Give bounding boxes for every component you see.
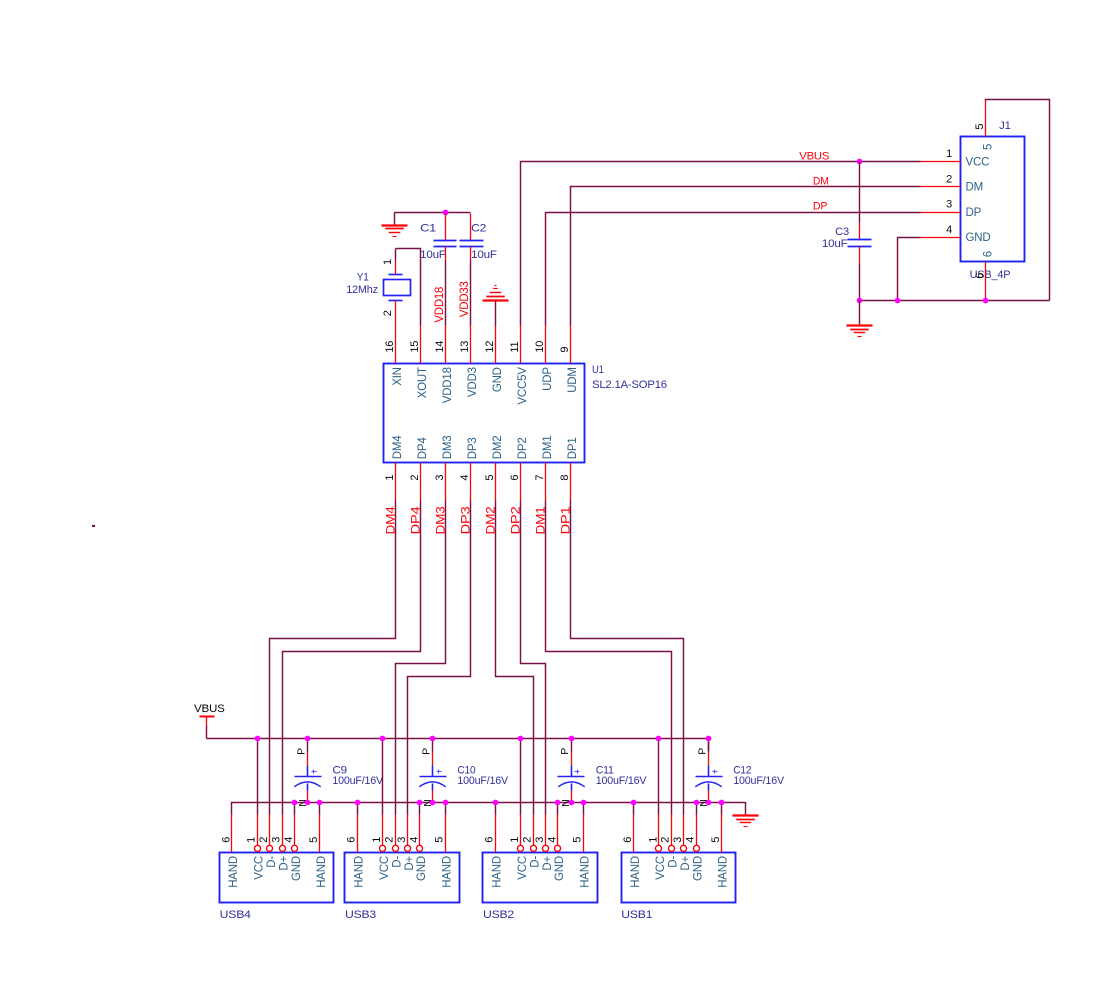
svg-text:100uF/16V: 100uF/16V <box>457 775 508 787</box>
svg-text:5: 5 <box>572 837 584 843</box>
svg-text:D-: D- <box>529 856 541 868</box>
U1 pin 12 (GND) <box>495 326 497 364</box>
svg-text:VCC: VCC <box>966 157 990 169</box>
wire GND bus <box>232 803 746 815</box>
wire crystal pin1 stub <box>395 249 397 261</box>
svg-text:P: P <box>697 748 709 755</box>
svg-text:2: 2 <box>258 837 270 843</box>
svg-text:D+: D+ <box>542 856 554 871</box>
wire J1 pin5 loop <box>986 100 1050 301</box>
wire VBUS (VCC5V to J1 pin1) <box>521 162 921 326</box>
J1 pin 3 (DP) <box>921 212 961 214</box>
svg-text:10uF: 10uF <box>471 249 497 261</box>
svg-text:3: 3 <box>434 475 446 481</box>
junction GND bus / USB3 pin5 <box>443 800 449 806</box>
svg-text:3: 3 <box>396 837 408 843</box>
svg-text:3: 3 <box>534 837 546 843</box>
svg-text:3: 3 <box>271 837 283 843</box>
svg-text:5: 5 <box>710 837 722 843</box>
junction C1 top <box>443 210 449 216</box>
wire DP1 to port <box>571 501 684 815</box>
svg-text:5: 5 <box>974 124 986 130</box>
svg-text:3: 3 <box>946 199 952 211</box>
junction VBUS bus / USB2 pin1 <box>518 736 524 742</box>
U1 pin 4 (DP3) <box>470 463 472 501</box>
junction gnd bus / J1 pin6 <box>983 298 989 304</box>
U1 pin 7 (DM1) <box>545 463 547 501</box>
junction VBUS bus / USB1 pin1 <box>656 736 662 742</box>
svg-text:VCC: VCC <box>517 856 529 880</box>
junction GND bus / USB2 pin6 <box>493 800 499 806</box>
svg-text:6: 6 <box>982 251 994 257</box>
wire DP4 to port <box>283 501 421 815</box>
svg-text:DM4: DM4 <box>392 435 404 459</box>
svg-text:DP4: DP4 <box>417 437 429 460</box>
svg-text:4: 4 <box>946 224 952 236</box>
svg-text:1: 1 <box>946 148 952 160</box>
junction gnd bus / C3 <box>857 298 863 304</box>
junction GND bus / USB2 pin5 <box>581 800 587 806</box>
svg-text:4: 4 <box>546 837 558 843</box>
svg-text:VCC5V: VCC5V <box>517 367 529 405</box>
junction GND bus / USB4 pin5 <box>317 800 323 806</box>
junction GND bus / C12 N <box>706 800 712 806</box>
J1 pin 4 (GND) <box>921 237 961 239</box>
svg-text:3: 3 <box>672 837 684 843</box>
wire DP (UDP to J1 pin3) <box>546 213 921 326</box>
svg-text:2: 2 <box>521 837 533 843</box>
svg-text:6: 6 <box>346 837 358 843</box>
svg-text:6: 6 <box>220 837 232 843</box>
svg-text:100uF/16V: 100uF/16V <box>332 775 383 787</box>
svg-text:1: 1 <box>246 837 258 843</box>
svg-text:4: 4 <box>408 837 420 843</box>
capacitor C1 <box>445 214 447 241</box>
Y1 pin 2 <box>395 301 397 326</box>
USB4 pin 3 (D+) <box>282 815 284 846</box>
U1 pin 9 (UDM) <box>570 326 572 364</box>
svg-text:DP2: DP2 <box>517 437 529 459</box>
connector USB1 body <box>622 853 736 903</box>
svg-text:5: 5 <box>434 837 446 843</box>
USB4 pin 4 (GND) <box>294 803 296 815</box>
USB1 pin 1 (VCC) <box>658 739 660 815</box>
svg-text:1: 1 <box>382 259 394 265</box>
junction VBUS bus / C12 P <box>706 736 712 742</box>
wire DM4 to port <box>270 501 396 815</box>
ground (J1 area) <box>847 300 873 336</box>
svg-text:DP: DP <box>966 207 982 219</box>
U1 pin 5 (DM2) <box>495 463 497 501</box>
svg-text:D+: D+ <box>279 856 291 871</box>
USB2 pin 1 (VCC) <box>520 739 522 815</box>
junction GND bus / C11 N <box>569 800 575 806</box>
U1 pin 8 (DP1) <box>570 463 572 501</box>
svg-text:C3: C3 <box>835 226 849 238</box>
junction VBUS bus / C11 P <box>569 736 575 742</box>
connector J1 USB_4P body <box>961 137 1025 262</box>
junction GND bus / USB1 pin6 <box>631 800 637 806</box>
USB3 pin 2 (D-) <box>395 815 397 846</box>
svg-text:11: 11 <box>509 341 521 352</box>
svg-text:VDD18: VDD18 <box>442 367 454 403</box>
wire gnd to C1/C2 tops <box>395 212 471 214</box>
svg-text:VBUS: VBUS <box>194 703 225 715</box>
wire DM1 to port <box>546 501 672 815</box>
svg-text:4: 4 <box>283 837 295 843</box>
svg-text:4: 4 <box>685 837 697 843</box>
svg-text:DP3: DP3 <box>467 437 479 459</box>
svg-text:D-: D- <box>266 856 278 868</box>
J1 pin 2 (DM) <box>921 186 961 188</box>
svg-text:HAND: HAND <box>492 856 504 888</box>
svg-text:VCC: VCC <box>655 856 667 880</box>
J1 pin 5 <box>985 100 987 137</box>
junction VBUS bus / C9 P <box>305 736 311 742</box>
wire J1 gnd bus <box>860 300 1050 302</box>
svg-text:12Mhz: 12Mhz <box>346 284 378 296</box>
svg-text:2: 2 <box>383 837 395 843</box>
svg-text:HAND: HAND <box>228 856 240 888</box>
svg-text:VDD18: VDD18 <box>434 287 446 323</box>
svg-text:USB3: USB3 <box>345 909 376 921</box>
svg-text:HAND: HAND <box>354 856 366 888</box>
junction GND bus / USB4 pin4 <box>292 800 298 806</box>
USB2 pin 4 (GND) <box>557 803 559 815</box>
svg-text:XOUT: XOUT <box>417 367 429 398</box>
junction VBUS bus / C10 P <box>430 736 436 742</box>
svg-text:D+: D+ <box>404 856 416 871</box>
svg-text:5: 5 <box>982 144 994 150</box>
svg-text:10uF: 10uF <box>822 238 848 250</box>
svg-text:DM3: DM3 <box>442 436 454 460</box>
svg-text:C2: C2 <box>471 223 486 235</box>
svg-text:GND: GND <box>416 856 428 881</box>
U1 pin 11 (VCC5V) <box>520 326 522 364</box>
USB4 pin 5 (HAND) <box>319 803 321 815</box>
capacitor C3 <box>859 162 861 223</box>
svg-text:VCC: VCC <box>379 856 391 880</box>
USB1 pin 5 (HAND) <box>721 803 723 815</box>
svg-text:DM2: DM2 <box>492 436 504 460</box>
junction GND bus / USB1 pin5 <box>719 800 725 806</box>
junction VBUS / C3 <box>857 159 863 165</box>
J1 pin 6 <box>985 262 987 301</box>
U1 pin 16 (XIN) <box>395 326 397 364</box>
wire DP2 to port <box>521 501 546 815</box>
svg-text:P: P <box>296 748 308 755</box>
USB2 pin 6 (HAND) <box>495 803 497 815</box>
ground (bottom right) <box>733 802 759 827</box>
svg-text:10uF: 10uF <box>420 249 446 261</box>
connector USB3 body <box>345 853 460 903</box>
junction gnd bus / J1 pin4 <box>895 298 901 304</box>
svg-text:6: 6 <box>484 837 496 843</box>
svg-text:15: 15 <box>409 341 421 353</box>
USB2 pin 2 (D-) <box>533 815 535 846</box>
wire VBUS bus <box>207 739 709 752</box>
svg-text:5: 5 <box>308 837 320 843</box>
svg-text:1: 1 <box>371 837 383 843</box>
svg-text:DM: DM <box>966 182 984 194</box>
svg-text:GND: GND <box>291 856 303 881</box>
wire XOUT to crystal top <box>396 249 421 326</box>
svg-text:U1: U1 <box>592 364 604 376</box>
svg-text:7: 7 <box>534 475 546 481</box>
svg-text:D-: D- <box>668 856 680 868</box>
U1 pin 10 (UDP) <box>545 326 547 364</box>
U1 pin 6 (DP2) <box>520 463 522 501</box>
USB2 pin 3 (D+) <box>545 815 547 846</box>
junction GND bus / C10 N <box>430 800 436 806</box>
svg-text:P: P <box>421 748 433 755</box>
svg-text:6: 6 <box>974 273 986 279</box>
svg-text:GND: GND <box>554 856 566 881</box>
svg-text:HAND: HAND <box>630 856 642 888</box>
wire DM3 to port <box>396 501 446 815</box>
svg-text:1: 1 <box>509 837 521 843</box>
Y1 pin 1 <box>395 261 397 275</box>
svg-text:9: 9 <box>559 347 571 353</box>
junction GND bus / USB1 pin4 <box>694 800 700 806</box>
capacitor C12 100uF/16V <box>695 739 784 807</box>
junction GND bus / USB3 pin4 <box>417 800 423 806</box>
wire DM2 to port <box>496 501 534 815</box>
svg-text:D-: D- <box>391 856 403 868</box>
svg-text:DM1: DM1 <box>542 436 554 460</box>
svg-text:GND: GND <box>966 232 991 244</box>
svg-text:GND: GND <box>693 856 705 881</box>
svg-text:HAND: HAND <box>441 856 453 888</box>
svg-text:HAND: HAND <box>579 856 591 888</box>
svg-text:6: 6 <box>622 837 634 843</box>
svg-text:14: 14 <box>434 341 446 353</box>
svg-text:1: 1 <box>647 837 659 843</box>
svg-text:HAND: HAND <box>718 856 730 888</box>
USB3 pin 6 (HAND) <box>357 803 359 815</box>
U1 pin 1 (DM4) <box>395 463 397 501</box>
svg-text:J1: J1 <box>999 120 1011 132</box>
svg-text:13: 13 <box>459 341 471 353</box>
USB3 pin 3 (D+) <box>407 815 409 846</box>
wire DP3 to port <box>408 501 471 815</box>
USB1 pin 4 (GND) <box>696 803 698 815</box>
svg-text:16: 16 <box>384 341 396 353</box>
connector USB4 body <box>220 853 334 903</box>
USB3 pin 4 (GND) <box>419 803 421 815</box>
svg-text:VCC: VCC <box>254 856 266 880</box>
J1 pin 1 (VCC) <box>921 161 961 163</box>
junction VBUS bus / USB3 pin1 <box>380 736 386 742</box>
USB1 pin 2 (D-) <box>671 815 673 846</box>
U1 pin 14 (VDD18) <box>445 326 447 364</box>
svg-text:4: 4 <box>459 475 471 481</box>
USB1 pin 6 (HAND) <box>633 803 635 815</box>
svg-text:GND: GND <box>492 367 504 392</box>
svg-text:12: 12 <box>484 341 496 353</box>
USB4 pin 6 (HAND) <box>231 815 233 853</box>
junction GND bus / USB2 pin4 <box>555 800 561 806</box>
USB3 pin 1 (VCC) <box>382 739 384 815</box>
svg-text:UDP: UDP <box>542 367 554 391</box>
USB1 pin 3 (D+) <box>683 815 685 846</box>
svg-text:VBUS: VBUS <box>799 151 830 163</box>
capacitor C9 100uF/16V <box>294 739 384 807</box>
svg-text:USB1: USB1 <box>621 909 652 921</box>
USB2 pin 5 (HAND) <box>583 803 585 815</box>
capacitor C2 <box>470 214 472 241</box>
capacitor C11 100uF/16V <box>558 739 648 807</box>
svg-text:VDD33: VDD33 <box>459 281 471 317</box>
svg-text:100uF/16V: 100uF/16V <box>733 775 784 787</box>
svg-text:DP: DP <box>813 201 827 213</box>
svg-text:P: P <box>559 748 571 755</box>
capacitor C10 100uF/16V <box>419 739 509 807</box>
svg-text:2: 2 <box>382 310 394 316</box>
svg-text:C1: C1 <box>420 223 436 235</box>
wire GND pin12 <box>495 301 497 326</box>
svg-text:USB4: USB4 <box>220 909 251 921</box>
crystal Y1 <box>389 274 403 276</box>
svg-text:DP1: DP1 <box>567 437 579 459</box>
U1 pin 2 (DP4) <box>420 463 422 501</box>
svg-text:D+: D+ <box>680 856 692 871</box>
USB4 pin 2 (D-) <box>269 815 271 846</box>
svg-text:XIN: XIN <box>392 367 404 386</box>
svg-text:Y1: Y1 <box>357 272 369 284</box>
svg-text:USB2: USB2 <box>483 909 514 921</box>
svg-text:6: 6 <box>509 475 521 481</box>
svg-text:HAND: HAND <box>316 856 328 888</box>
ground (C1/C2 top) <box>382 212 408 236</box>
stray mark <box>92 525 95 527</box>
svg-text:1: 1 <box>384 475 396 481</box>
svg-text:100uF/16V: 100uF/16V <box>596 775 647 787</box>
U1 pin 13 (VDD3) <box>470 326 472 364</box>
svg-text:UDM: UDM <box>567 367 579 393</box>
wire DM (UDM to J1 pin2) <box>571 187 921 326</box>
U1 pin 15 (XOUT) <box>420 326 422 364</box>
svg-text:2: 2 <box>409 475 421 481</box>
USB4 pin 1 (VCC) <box>257 739 259 815</box>
ground (U1 pin12) <box>483 286 509 301</box>
svg-text:DM: DM <box>813 175 829 187</box>
svg-text:VDD3: VDD3 <box>467 367 479 397</box>
svg-text:5: 5 <box>484 475 496 481</box>
U1 pin 3 (DM3) <box>445 463 447 501</box>
svg-text:2: 2 <box>946 173 952 185</box>
IC U1 SL2.1A-SOP16 body <box>384 364 585 463</box>
svg-text:2: 2 <box>660 837 672 843</box>
svg-text:SL2.1A-SOP16: SL2.1A-SOP16 <box>592 379 667 391</box>
junction GND bus / C9 N <box>305 800 311 806</box>
svg-text:10: 10 <box>534 341 546 353</box>
junction GND bus / USB3 pin6 <box>355 800 361 806</box>
USB3 pin 5 (HAND) <box>445 803 447 815</box>
svg-text:8: 8 <box>559 475 571 481</box>
wire J1 pin4 to gnd bus <box>898 238 921 301</box>
connector USB2 body <box>483 853 598 903</box>
junction VBUS bus / USB4 pin1 <box>255 736 261 742</box>
